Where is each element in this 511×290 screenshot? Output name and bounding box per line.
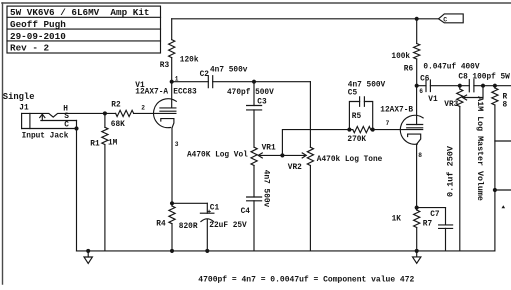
wire C1 to bus — [206, 220, 208, 251]
svg-text:12AX7-A: 12AX7-A — [135, 89, 168, 97]
node star mark — [502, 205, 506, 208]
resistor R2 — [111, 102, 134, 130]
op V1b labels — [380, 96, 438, 127]
capacitor C5 — [348, 82, 386, 130]
junction cathode R7/C7 — [415, 206, 418, 209]
svg-text:29-09-2010: 29-09-2010 — [10, 31, 66, 42]
svg-text:7: 7 — [386, 120, 390, 127]
triode V1b — [400, 86, 423, 159]
wire R1 to bus — [104, 145, 106, 251]
svg-text:VR1: VR1 — [262, 145, 276, 153]
svg-text:C8 100pf 5W: C8 100pf 5W — [458, 74, 510, 82]
svg-text:6: 6 — [419, 88, 423, 95]
svg-text:R6: R6 — [404, 65, 414, 73]
svg-text:C3: C3 — [257, 98, 267, 106]
wire R5 to V1b grid — [373, 129, 423, 131]
svg-text:A470K Log Vol: A470K Log Vol — [187, 152, 248, 160]
wire VR3 bottom to bus — [459, 107, 461, 251]
node C tag — [439, 14, 464, 24]
wire R6 top lead — [416, 19, 418, 44]
svg-text:8: 8 — [503, 101, 508, 109]
svg-text:5W VK6V6 / 6L6MV Amp Kit: 5W VK6V6 / 6L6MV Amp Kit — [10, 7, 149, 18]
svg-text:8: 8 — [418, 152, 422, 159]
svg-text:C: C — [443, 16, 447, 23]
svg-text:C4: C4 — [241, 208, 251, 216]
junction stub 2 — [493, 189, 496, 192]
wire R2 to V1a grid — [134, 105, 176, 114]
svg-text:4n7 500v: 4n7 500v — [210, 66, 248, 74]
wire cathode branch to C7 — [417, 207, 446, 209]
wire C4 bottom to bus — [253, 201, 255, 251]
svg-text:C5: C5 — [348, 89, 358, 97]
svg-text:C6: C6 — [420, 76, 430, 84]
junction wiper tee — [281, 154, 284, 157]
wire R3 top lead — [171, 19, 173, 40]
svg-text:H: H — [63, 105, 68, 113]
capacitor C7 — [430, 145, 456, 251]
svg-text:820R: 820R — [179, 223, 198, 231]
svg-text:2: 2 — [141, 105, 145, 112]
svg-text:R4: R4 — [156, 221, 166, 229]
connector J1 input jack — [3, 92, 116, 141]
wire R6 bottom lead — [416, 59, 418, 86]
resistor R7 — [392, 210, 433, 229]
svg-text:3: 3 — [175, 141, 179, 148]
svg-text:C7: C7 — [430, 211, 440, 219]
wire VR2 top column — [309, 82, 311, 148]
svg-text:A1M Log Master Volume: A1M Log Master Volume — [475, 96, 485, 201]
svg-text:C1: C1 — [210, 205, 220, 213]
svg-text:R3: R3 — [160, 62, 170, 70]
svg-text:R5: R5 — [352, 113, 362, 121]
potentiometer VR2 — [288, 147, 383, 172]
wire cathode branch to C1 — [172, 202, 207, 204]
wire wiper riser — [282, 130, 349, 156]
wire R8 to bus — [493, 105, 496, 251]
svg-text:12AX7-B: 12AX7-B — [380, 107, 413, 115]
svg-text:270K: 270K — [347, 136, 366, 144]
junction R8 top — [493, 84, 496, 87]
capacitor C2 — [200, 66, 248, 87]
resistor R4 — [156, 206, 198, 231]
capacitor C6 — [420, 63, 480, 91]
svg-text:Geoff Pugh: Geoff Pugh — [10, 19, 66, 30]
wire stub out 1 — [495, 140, 511, 142]
svg-text:68K: 68K — [111, 121, 125, 129]
svg-text:4n7 500V: 4n7 500V — [348, 82, 386, 90]
svg-text:Single: Single — [3, 92, 35, 102]
wire plate node to C2 — [172, 81, 209, 83]
svg-text:V1: V1 — [428, 96, 438, 104]
capacitor C4 — [241, 170, 270, 216]
wire R4 to bus — [171, 224, 173, 251]
capacitor C8 — [458, 74, 510, 92]
wire C6 to C8 — [430, 85, 469, 87]
capacitor C3 — [227, 89, 274, 110]
wire C8 to edge — [474, 85, 511, 87]
junction cathode R4/C1 — [171, 202, 174, 205]
resistor R8 — [492, 86, 508, 110]
svg-text:22uF 25V: 22uF 25V — [209, 222, 247, 230]
wire plate node to C6 — [417, 85, 426, 87]
svg-text:R: R — [503, 94, 508, 102]
junction C3 top — [253, 80, 256, 83]
svg-text:100k: 100k — [391, 53, 410, 61]
ground symbol right — [413, 251, 421, 263]
potentiometer VR1 — [187, 145, 276, 166]
svg-text:J1: J1 — [19, 105, 29, 113]
svg-text:120k: 120k — [180, 57, 199, 65]
wire jack sleeve to bus — [76, 121, 78, 251]
note formula text — [198, 276, 414, 285]
resistor R3 — [160, 40, 199, 71]
wire V1b cathode down — [416, 144, 418, 210]
resistor R1 — [90, 113, 117, 148]
junction VR3 wiper tap — [482, 84, 485, 87]
junction bus dots — [87, 249, 419, 252]
wire C2 to VR2 column — [213, 81, 311, 83]
svg-text:ECC83: ECC83 — [173, 89, 197, 97]
title block — [7, 6, 161, 54]
svg-text:470pf 500V: 470pf 500V — [227, 89, 274, 97]
wire C3 to VR1 — [253, 110, 255, 147]
junction R1 top — [103, 112, 106, 115]
ground bus wire — [77, 250, 495, 252]
ground symbol left — [84, 251, 92, 264]
wire R7 to bus — [416, 228, 418, 251]
capacitor C1 — [200, 203, 247, 230]
wire stub out 2 — [495, 189, 511, 191]
wire VR2 bottom to ground bus — [309, 166, 311, 251]
svg-text:VR2: VR2 — [288, 164, 302, 172]
svg-text:1K: 1K — [392, 216, 402, 224]
junction top rail / R6 — [415, 17, 418, 20]
wire V1a cathode down — [171, 128, 173, 206]
wire C3 top lead — [253, 82, 255, 106]
op V1a labels — [135, 82, 197, 97]
svg-text:C2: C2 — [200, 71, 210, 79]
potentiometer VR3 — [444, 86, 485, 201]
resistor R6 — [391, 44, 419, 74]
svg-text:R2: R2 — [111, 102, 121, 110]
wire R3 bottom lead — [171, 58, 173, 82]
svg-text:S: S — [64, 113, 69, 121]
junction jack sleeve — [75, 127, 78, 130]
svg-text:0.1uf 250V: 0.1uf 250V — [446, 145, 456, 197]
junction R5 left — [348, 128, 351, 131]
wire top HT rail — [172, 18, 439, 20]
node 1 junction V1a plate — [170, 75, 179, 83]
wire VR3 wiper — [463, 86, 484, 100]
resistor R5 — [347, 113, 372, 144]
svg-text:1M: 1M — [108, 140, 118, 148]
svg-text:4n7 500v: 4n7 500v — [262, 170, 270, 208]
svg-text:Rev - 2: Rev - 2 — [10, 43, 49, 54]
svg-text:A470k Log Tone: A470k Log Tone — [317, 156, 383, 164]
svg-text:0.047uf 400V: 0.047uf 400V — [423, 63, 479, 71]
svg-text:R1: R1 — [90, 141, 100, 149]
junction R6 plate node — [415, 84, 418, 87]
svg-text:VR3: VR3 — [444, 101, 458, 109]
border frame left — [2, 3, 4, 284]
border frame top — [2, 2, 511, 4]
wire VR1 bottom to C4 — [253, 166, 255, 198]
junction VR3 top — [458, 84, 461, 87]
triode V1a — [154, 82, 179, 148]
svg-text:Input Jack: Input Jack — [22, 133, 69, 141]
wire VR1 wiper to VR2 wiper — [258, 153, 306, 158]
junction R5 right — [371, 128, 374, 131]
svg-text:C: C — [64, 121, 69, 129]
svg-text:4700pf = 4n7 = 0.0047uf = Comp: 4700pf = 4n7 = 0.0047uf = Component valu… — [198, 276, 414, 285]
svg-text:R7: R7 — [423, 221, 433, 229]
